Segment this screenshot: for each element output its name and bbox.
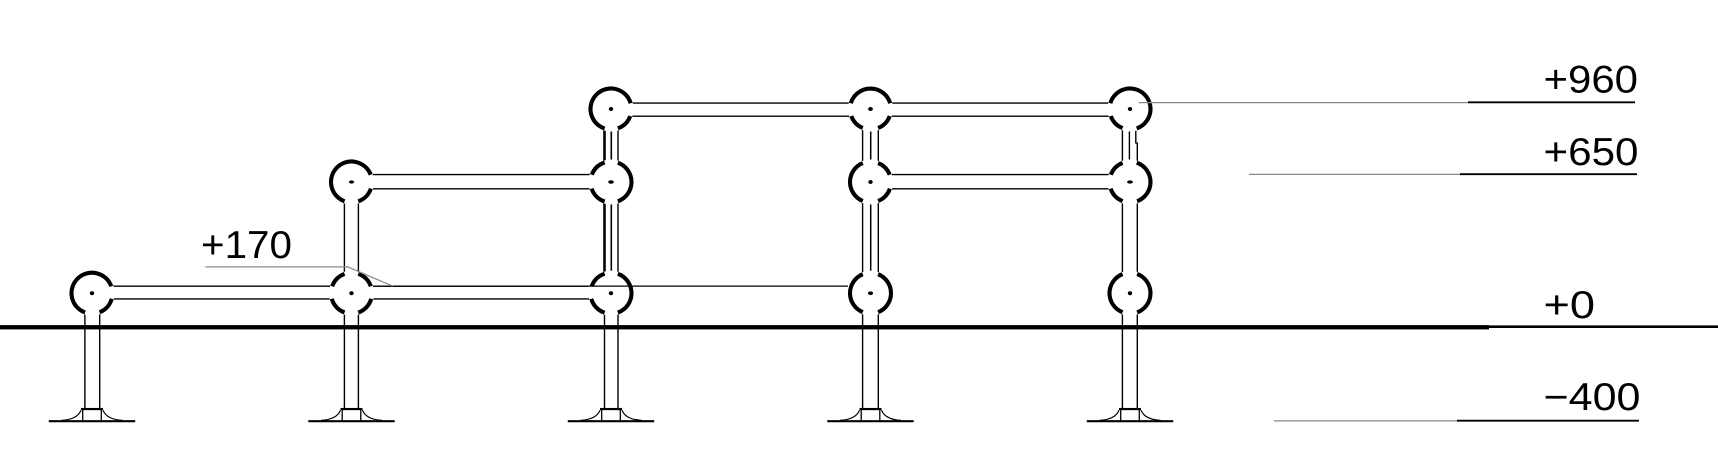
flared base post4 (-400) <box>827 408 913 422</box>
svg-text:+0: +0 <box>1544 284 1596 327</box>
rail +650 top edge (post4-post5) <box>871 174 1131 176</box>
leader line -400 (grey) <box>1274 420 1457 422</box>
rail +170 bottom edge (post1-post3) <box>92 298 611 300</box>
ball joint post3 +650 <box>588 159 633 204</box>
ball joint post5 +960 <box>1107 86 1152 131</box>
ball joint post5 +170 <box>1107 271 1152 316</box>
ball joint post5 +650 <box>1107 159 1152 204</box>
post4 centre line <box>870 109 872 293</box>
centre dot post4 +960 <box>868 107 873 111</box>
rail +650 top edge (post2-post3) <box>352 174 612 176</box>
post3 right edge <box>617 109 619 408</box>
rail +960 top edge (post3-post5) <box>611 102 1130 104</box>
post4 left edge <box>862 109 864 408</box>
ball joint post2 +650 <box>329 159 374 204</box>
centre dot post2 +650 <box>349 180 354 183</box>
centre dot post4 +650 <box>868 180 872 184</box>
ball joint post1 +170 <box>69 271 114 316</box>
svg-text:+960: +960 <box>1544 59 1639 102</box>
flared base post3 (-400) <box>568 408 654 422</box>
svg-text:+650: +650 <box>1544 131 1639 174</box>
ball joint post3 +170 <box>588 271 633 316</box>
post5 left edge <box>1121 109 1123 408</box>
post5 centre splice line <box>1128 109 1130 182</box>
centre dot post4 +170 <box>868 291 873 295</box>
ball joint post4 +960 <box>848 86 893 131</box>
ground line +0 (heavy) <box>0 325 1489 329</box>
ball joint post4 +650 <box>848 159 893 204</box>
centre dot post5 +170 <box>1128 291 1132 295</box>
flared base post2 (-400) <box>308 408 394 422</box>
centre dot post3 +960 <box>609 107 613 111</box>
rail +650 bottom edge (post2-post3) <box>352 188 612 190</box>
svg-text:−400: −400 <box>1544 376 1641 419</box>
post3 left edge (upper, heavy) <box>603 109 606 293</box>
post1 right edge <box>99 293 101 408</box>
level line +960 (black) <box>1468 101 1635 103</box>
post2 left edge <box>343 182 345 408</box>
post5 right edge upper (splice) <box>1135 109 1137 143</box>
rail +170 top edge (post1-post2) <box>92 285 352 287</box>
post4 right edge <box>877 109 879 408</box>
flared base post5 (-400) <box>1087 408 1173 422</box>
centre dot post1 +170 <box>90 291 94 295</box>
level line +650 (black) <box>1460 173 1637 175</box>
post5 splice step <box>1135 142 1138 144</box>
ball joint post3 +960 <box>588 86 633 131</box>
leader line +650 (grey) <box>1249 173 1460 175</box>
leader line +960 (grey) <box>1139 102 1468 104</box>
rail +650 bottom edge (post4-post5) <box>871 188 1131 190</box>
post1 left edge <box>84 293 86 408</box>
flared base post1 (-400) <box>49 408 135 422</box>
rail +170 top edge (post2-post3) <box>352 285 589 287</box>
svg-text:+170: +170 <box>201 224 292 267</box>
centre dot post2 +170 <box>349 291 353 295</box>
ball joint post4 +170 <box>848 271 893 316</box>
ball joint post2 +170 <box>329 271 374 316</box>
centre dot post3 +650 <box>608 180 614 183</box>
rail +960 bottom edge (post3-post5) <box>611 115 1130 117</box>
leader line +170 (grey, with bend to rail) <box>206 267 393 286</box>
post3 left edge (below ball) <box>604 293 606 408</box>
post2 right edge <box>357 182 359 408</box>
centre dot post3 +170 <box>609 291 613 295</box>
level line -400 (black) <box>1457 420 1639 422</box>
post3 centre line <box>610 109 612 293</box>
centre dot post5 +960 <box>1128 107 1132 111</box>
ground line +0 extension (right) <box>1489 325 1718 328</box>
centre dot post5 +650 <box>1127 180 1133 183</box>
tie line +170 post2-post4 (through post3 ball) <box>374 285 848 287</box>
post5 right edge lower <box>1136 143 1138 408</box>
